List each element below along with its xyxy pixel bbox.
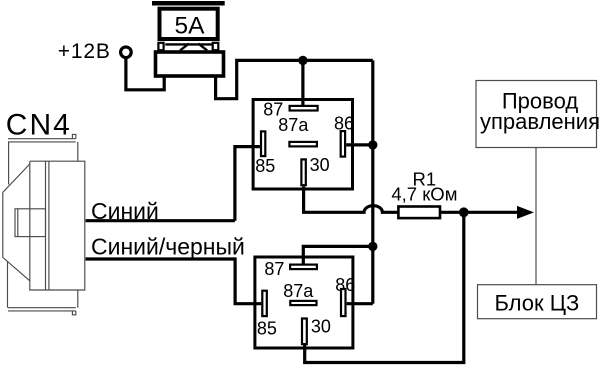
relay K2 pin 86 (341, 289, 346, 316)
wire junction to relay1 pin 87 (301, 60, 304, 105)
node junction relay K2 (368, 242, 377, 251)
relay K2 pin 87 (290, 265, 317, 270)
+12V terminal circle (121, 47, 132, 58)
svg-text:CN4: CN4 (6, 108, 72, 141)
relay K1 pin 86 (341, 131, 345, 157)
relay K1 pin 87a (289, 142, 317, 147)
box Blok CZ (central lock unit) (478, 285, 597, 319)
relay K1 pin 85 (261, 131, 265, 156)
wire fuse holder to top bus (216, 60, 373, 98)
wire relay K2 pin 86 to vertical bus (347, 302, 373, 305)
relay K1 pin 87 (290, 106, 318, 111)
svg-text:85: 85 (255, 156, 275, 176)
svg-text:5А: 5А (175, 12, 206, 39)
svg-text:управления: управления (480, 109, 600, 134)
wire +12V terminal to fuse holder (126, 58, 164, 90)
relay K2 pin 87a (290, 301, 316, 305)
svg-text:87: 87 (264, 259, 284, 279)
wire junction to relay K2 pin 87 (303, 246, 373, 264)
svg-text:Синий: Синий (91, 198, 159, 224)
svg-text:87а: 87а (278, 115, 309, 135)
svg-text:Блок ЦЗ: Блок ЦЗ (494, 291, 579, 316)
wire relay K1 pin 86 to vertical bus (346, 143, 373, 146)
wire resistor R1 to arrow (440, 211, 518, 214)
svg-text:4,7 кОм: 4,7 кОм (391, 184, 457, 205)
resistor R1 (398, 207, 440, 219)
fuse F1 5A body (152, 1, 225, 76)
connector CN4 housing (3, 134, 85, 314)
relay K1 pin 30 (301, 159, 305, 185)
wire relay K1 pin 30 to resistor R1 (with hop over bus) (304, 187, 399, 213)
wire relay K1 pin 85 to blue wire (235, 147, 260, 221)
svg-text:87а: 87а (283, 281, 314, 301)
svg-text:Синий/черный: Синий/черный (91, 234, 245, 260)
svg-text:30: 30 (311, 316, 331, 336)
arrow to control wire (517, 206, 534, 219)
svg-text:30: 30 (310, 155, 330, 175)
node junction resistor output (459, 207, 469, 217)
node junction relay K1 pin86 (368, 140, 377, 149)
svg-text:+12В: +12В (58, 40, 111, 63)
relay K2 box (255, 257, 353, 348)
wire vertical bus (371, 60, 374, 303)
node junction fuse/relay1 pin87 (298, 56, 307, 65)
wire control boxes link (535, 148, 537, 285)
relay K2 pin 85 (262, 291, 267, 316)
relay K2 pin 30 (302, 319, 307, 345)
wire Siniy (blue) from connector (86, 219, 235, 222)
wire Siniy/cherny from connector to relay K2 pin 85 (86, 259, 262, 304)
wire junction down to relay K2 pin 30 (305, 212, 464, 362)
svg-text:85: 85 (257, 318, 277, 338)
relay K1 box (253, 100, 352, 190)
box Provod upravleniya (control wire) (476, 81, 597, 148)
